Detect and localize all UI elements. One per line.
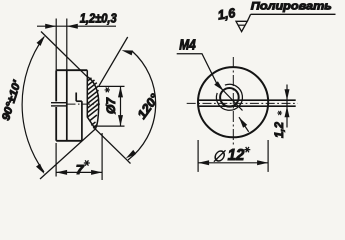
- dim line dia7: [120, 86, 122, 126]
- dia symbol of dia12: [214, 150, 226, 161]
- cone edge L3: [99, 37, 128, 86]
- step edge V4: [75, 93, 77, 102]
- dim line 7*: [56, 171, 102, 173]
- cone band outer edge: [87, 77, 98, 129]
- 120 deg arc: [128, 51, 156, 160]
- dim dia7 ext top: [97, 85, 125, 87]
- dim dia12 ext right: [267, 140, 269, 172]
- slot edge lower: [198, 105, 296, 107]
- svg-text:1,2: 1,2: [272, 122, 286, 138]
- axis centerline: [68, 103, 101, 105]
- dim dia12 ext left: [197, 140, 199, 172]
- svg-text:120°: 120°: [135, 91, 163, 122]
- cone edge L6: [95, 129, 130, 164]
- asterisk of 7*: [84, 160, 90, 165]
- M4 leader shelf: [177, 54, 243, 111]
- extension line left (1,2 dim): [55, 19, 57, 71]
- svg-text:Полировать: Полировать: [251, 1, 332, 13]
- svg-text:М4: М4: [179, 38, 196, 54]
- svg-text:1,2±0,3: 1,2±0,3: [80, 12, 117, 26]
- 90 arc arrow bottom: [36, 164, 47, 176]
- horizontal centerline: [187, 102, 298, 104]
- step edge H-mid: [76, 100, 82, 102]
- cone edge L1: [41, 32, 87, 77]
- 90 arc arrow top: [37, 34, 48, 46]
- vertical centerline: [232, 57, 234, 146]
- arrow right-pointing: [45, 24, 56, 29]
- disc bottom face: [56, 140, 82, 142]
- step edge V3: [81, 101, 83, 141]
- small leader lower right: [239, 117, 249, 132]
- slot edge upper: [198, 99, 296, 101]
- 120 arc arrow bottom: [124, 150, 136, 161]
- thread major arc: [216, 84, 242, 110]
- dim line dia12: [198, 162, 268, 164]
- asterisk of dia7*: [105, 87, 110, 92]
- surface finish symbol: [236, 21, 247, 31]
- svg-text:90°±10': 90°±10': [0, 79, 24, 122]
- dim line 1,2±0,3: [37, 25, 116, 27]
- slot edge lower: [51, 105, 67, 107]
- arrow left-pointing: [67, 24, 78, 29]
- dim 7* ext left: [55, 143, 57, 177]
- svg-text:Ø7: Ø7: [104, 97, 118, 114]
- svg-text:7: 7: [76, 162, 85, 177]
- dim 7* ext right: [101, 133, 103, 180]
- finish overline: [251, 13, 336, 15]
- asterisk of dia12*: [244, 147, 250, 152]
- hatching: [88, 78, 99, 128]
- cone band inner edge: [87, 70, 95, 129]
- outer circle: [198, 67, 268, 137]
- asterisk of 1,2*: [277, 111, 282, 115]
- svg-text:12: 12: [228, 147, 245, 164]
- M4 leader arrowhead: [214, 81, 225, 92]
- 120 arc arrow top: [121, 48, 133, 56]
- disc left face outline: [55, 70, 57, 141]
- dim dia7 ext bottom: [94, 125, 125, 127]
- inner edge V2: [66, 70, 68, 141]
- thread minor circle: [220, 88, 239, 107]
- slot edge upper: [51, 102, 67, 104]
- cone edge L5: [40, 129, 95, 179]
- dim line 1,2*: [286, 85, 288, 128]
- 90 deg arc: [22, 37, 44, 172]
- extension line right (1,2 dim): [66, 19, 68, 71]
- disc top face: [56, 69, 87, 71]
- svg-text:1,6: 1,6: [217, 5, 237, 23]
